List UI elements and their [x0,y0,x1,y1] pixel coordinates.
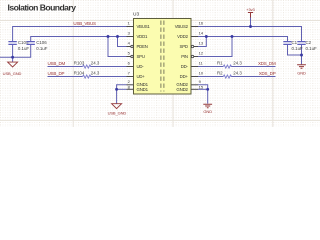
pin 2 GND1 [127,84,134,86]
wire C106 top to VDD1 net [31,37,127,42]
pin 12 PIN [194,56,198,58]
svg-text:UD+: UD+ [137,74,146,79]
svg-text:16: 16 [199,21,204,26]
pin 12 bubble [191,55,193,57]
svg-text:USB_DP: USB_DP [48,71,65,76]
svg-text:R103: R103 [74,61,85,66]
pin stubs left [127,27,134,90]
svg-text:VDD1: VDD1 [137,34,148,39]
wire R103 to pin 6 [90,66,126,68]
pin stubs right [191,27,198,90]
svg-text:0.1uF: 0.1uF [18,46,30,51]
wire PDEN branch from VDD1 [118,37,127,47]
node PDEN/VDD1 [116,35,119,38]
pin numbers left [128,21,131,90]
svg-text:PDEN: PDEN [137,44,148,49]
wire C2 bottom to GND [301,44,303,64]
wire C1 bottom to GND rail [288,44,302,55]
wire +3v3 drop [250,18,252,27]
wire SPU branch from VDD1 [108,37,127,57]
svg-text:24.3: 24.3 [91,71,100,76]
svg-text:C106: C106 [36,40,47,45]
wire GND2 junction down to GND [207,89,209,103]
wire SPD branch up to VDD2 [198,37,206,47]
wire R104 to pin 7 [90,76,126,78]
svg-text:R1: R1 [217,61,223,66]
pin 13 SPD [194,46,198,48]
svg-text:24.3: 24.3 [91,61,100,66]
wire pin 9 GND2 [198,85,208,90]
pin 4 PDEN [127,46,131,48]
svg-text:VBUS2: VBUS2 [175,24,189,29]
wire VDD2 pin 14 to C1 top [198,37,288,42]
power port +3v3 [248,13,253,18]
pin 11 DD- [191,66,198,68]
svg-text:R104: R104 [74,71,85,76]
capacitor C2 [297,42,305,45]
svg-text:DD+: DD+ [180,74,189,79]
wire pin 15 GND2 [198,88,208,90]
pin 3 VDD1 [127,36,134,38]
svg-text:GND: GND [203,109,212,114]
resistor R1 [223,65,231,68]
svg-text:24.3: 24.3 [233,71,242,76]
pin names right column [175,24,189,92]
pin numbers right [199,21,204,90]
wire DD+ to R2 [198,76,223,78]
pin 16 VBUS2 [191,26,198,28]
wire USB_GND stem left [12,57,14,62]
wire C105 bottom to USB_GND rail [12,44,14,57]
svg-text:USB_GND: USB_GND [3,71,22,76]
svg-text:U3: U3 [133,12,139,18]
svg-text:12: 12 [199,51,204,56]
svg-text:0.1uF: 0.1uF [306,46,318,51]
pin 9 GND2 [191,84,198,86]
svg-text:GND: GND [297,70,306,75]
wire pin 8 GND1 [117,88,127,90]
svg-text:XDS_DP: XDS_DP [259,71,276,76]
svg-text:SPU: SPU [137,54,145,59]
pin 7 UD+ [127,76,134,78]
node +3v3/VBUS2 [249,25,252,28]
wire pin 2 GND1 [117,85,127,90]
ground USB_GND left [8,62,18,67]
wire USB_DM to R103 [48,66,83,68]
pin 14 VDD2 [191,36,198,38]
svg-text:13: 13 [199,41,204,46]
svg-text:C1: C1 [292,40,298,45]
svg-text:0.1uF: 0.1uF [292,46,304,51]
node PIN/VDD2 [231,35,234,38]
IC U3 USB isolator body [134,19,192,95]
svg-text:14: 14 [199,31,204,36]
ground GND right (earth) [297,65,306,69]
svg-text:DD-: DD- [181,64,189,69]
resistor R103 [83,65,91,68]
resistor R2 [223,75,231,78]
wire USB_GND rail left [0,44,31,57]
pin 8 GND1 [127,88,134,90]
pin names left column [137,24,151,92]
capacitor C106 [27,42,35,45]
pin 6 UD- [127,66,134,68]
svg-text:XDS_DM: XDS_DM [258,61,276,66]
wire VBUS2 pin 16 to C2 top [198,27,302,42]
svg-text:VDD2: VDD2 [177,34,188,39]
wire R1 to XDS_DM [231,66,276,68]
svg-text:10: 10 [199,71,204,76]
ground USB_GND middle [112,104,122,109]
pin 13 bubble [191,45,193,47]
capacitor C1 [283,42,291,45]
svg-text:USB_GND: USB_GND [108,110,127,115]
pin 5 bubble [131,55,133,57]
isolation barrier dashes [161,21,164,92]
node SPD/VDD2 [205,35,208,38]
pin 15 GND2 [191,88,198,90]
svg-text:15: 15 [199,85,204,90]
svg-text:GND2: GND2 [176,87,188,92]
pin 10 DD+ [191,76,198,78]
svg-text:R2: R2 [217,71,223,76]
capacitor C105 [8,42,16,45]
svg-text:GND1: GND1 [137,87,149,92]
svg-text:Isolation Boundary: Isolation Boundary [8,3,77,13]
node SPU/VDD1 [107,35,110,38]
svg-text:24.3: 24.3 [233,61,242,66]
pin 1 VBUS1 [127,26,134,28]
wire USB_DP to R104 [48,76,83,78]
node C105/USB_GND rail [11,56,14,59]
ground GND middle (earth) [203,104,212,108]
svg-text:0.1uF: 0.1uF [36,46,48,51]
svg-text:UD-: UD- [137,64,145,69]
svg-text:VBUS1: VBUS1 [137,24,151,29]
wire DD- to R1 [198,66,223,68]
svg-text:PIN: PIN [181,54,188,59]
resistor R104 [83,75,91,78]
node GND2 junction [206,88,209,91]
svg-text:+3v3: +3v3 [246,7,255,12]
pin 5 SPU [127,56,131,58]
svg-text:USB_VBUS: USB_VBUS [73,21,96,26]
svg-text:SPD: SPD [180,44,188,49]
wire R2 to XDS_DP [231,76,276,78]
svg-text:USB_DM: USB_DM [48,61,66,66]
node C1/C2/GND [300,54,303,57]
wire PIN branch up to VDD2 [198,37,232,57]
major grid lines [0,0,320,127]
pin 4 bubble [131,45,133,47]
node GND1 junction [115,88,118,91]
wire GND1 junction down to USB_GND [116,89,118,103]
svg-text:C2: C2 [306,40,312,45]
wire USB_VBUS net: corner to pin 1 [13,27,127,42]
